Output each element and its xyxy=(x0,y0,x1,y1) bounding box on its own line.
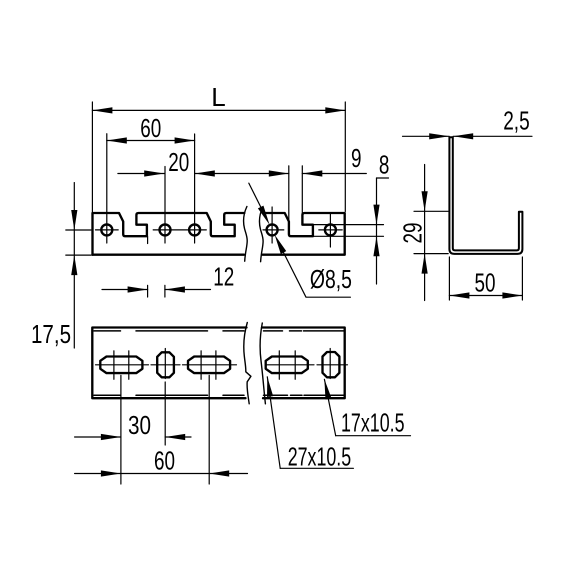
svg-text:9: 9 xyxy=(351,143,362,173)
dimension 20 right arrow with shared tail to dim 9 xyxy=(195,173,289,175)
dimension L line xyxy=(92,109,345,111)
dimension 60 line xyxy=(75,473,248,475)
dimension 12 arrowheads xyxy=(128,286,148,292)
svg-text:50: 50 xyxy=(475,268,496,298)
dimension 2,5 lines xyxy=(403,135,533,137)
dimension L extension lines xyxy=(92,102,345,213)
svg-text:20: 20 xyxy=(168,147,189,177)
hole centerline horizontals xyxy=(96,229,343,231)
slot S5 (17x10.5 small slot) xyxy=(323,352,340,377)
svg-text:12: 12 xyxy=(213,262,234,292)
dimension 17,5 arrowheads xyxy=(71,210,77,230)
svg-text:8: 8 xyxy=(379,150,390,180)
dimension 29 vertical line xyxy=(424,165,426,301)
leader 17x10.5 xyxy=(324,379,335,435)
dimension 20 left tail and arrow xyxy=(118,173,164,175)
profile outline left portion (tab1, notch1, tab2, notch2, tab3 to break) xyxy=(93,213,245,255)
leader line through hole H4 xyxy=(249,183,351,297)
dimension 8 extension lines xyxy=(314,225,384,237)
leader 27x10.5 xyxy=(267,377,280,469)
dimension 2,5 arrowheads xyxy=(429,133,449,139)
slot S1 (27x10.5 long slot) xyxy=(100,357,142,374)
svg-text:60: 60 xyxy=(140,113,161,143)
profile outline right portion (after break: tab3 end, notch3, last tab, right end) xyxy=(263,213,345,255)
dimension 17,5 vertical line xyxy=(73,183,75,348)
slot S2 (17x10.5 small slot) xyxy=(157,352,174,377)
hole H3 xyxy=(189,224,200,235)
svg-text:17x10.5: 17x10.5 xyxy=(341,408,405,438)
break line S1 top view xyxy=(244,207,248,262)
dimension 50 line xyxy=(449,295,522,297)
dimension 8 text bar xyxy=(377,177,389,179)
dimension 30/60 extension lines xyxy=(121,375,209,484)
dimension 30 lines xyxy=(75,436,191,438)
dimension 9 extension lines xyxy=(289,166,303,220)
dimension 60 line xyxy=(107,140,195,142)
svg-text:17,5: 17,5 xyxy=(31,319,71,349)
svg-text:Ø8,5: Ø8,5 xyxy=(310,264,352,294)
profile bottom edge left of break xyxy=(93,254,245,256)
dimension 30 arrowheads xyxy=(101,434,121,440)
hole H1 xyxy=(101,224,112,235)
leader arrowheads at hole rim xyxy=(258,206,270,225)
dimension 8 vertical line and tails xyxy=(376,178,378,284)
bottom view outline xyxy=(92,328,344,399)
svg-text:27x10.5: 27x10.5 xyxy=(288,441,352,471)
dimension 12 extension lines xyxy=(148,236,165,297)
dimension 12 lines xyxy=(102,289,211,291)
svg-text:2,5: 2,5 xyxy=(503,106,530,136)
break line S2 bottom view xyxy=(260,323,265,404)
hole centerline verticals xyxy=(107,134,331,247)
label 17x10.5 underline xyxy=(336,435,411,437)
hole H4 xyxy=(267,224,278,235)
dimension 50 extension lines xyxy=(449,257,522,300)
dimension 50 arrowheads xyxy=(449,292,469,298)
dimension 60 arrowheads xyxy=(101,470,121,476)
dimension 17,5 extension lines xyxy=(66,230,91,255)
break line S1 bottom view (with kink) xyxy=(244,323,251,404)
dimension 29 arrowheads xyxy=(422,191,428,211)
hole H5 xyxy=(325,224,336,235)
slot centerline verticals xyxy=(114,349,330,380)
break line S2 top view xyxy=(260,207,264,262)
dimension 9 right tail xyxy=(302,173,366,175)
dimension 8 arrowheads xyxy=(373,205,379,225)
bottom view inner bend line top (dashed) xyxy=(94,330,344,332)
hole H2 xyxy=(160,224,171,235)
svg-text:L: L xyxy=(211,82,225,112)
svg-text:30: 30 xyxy=(128,410,151,440)
slot S4 (27x10.5 long slot) xyxy=(266,357,308,374)
dimension L arrowheads xyxy=(92,107,112,113)
label 27x10.5 underline xyxy=(280,467,353,469)
slot S3 (27x10.5 long slot) xyxy=(188,357,230,374)
svg-text:60: 60 xyxy=(154,446,175,476)
dimension 60 arrowheads xyxy=(107,137,127,143)
dimension 9 arrowheads xyxy=(269,170,289,176)
svg-text:29: 29 xyxy=(397,223,427,244)
cross-section sheet outline xyxy=(449,137,522,254)
bottom view inner bend line bottom (dashed) xyxy=(94,394,344,396)
dimension 29 extension lines xyxy=(414,211,448,253)
slot centerline horizontal xyxy=(96,364,348,366)
